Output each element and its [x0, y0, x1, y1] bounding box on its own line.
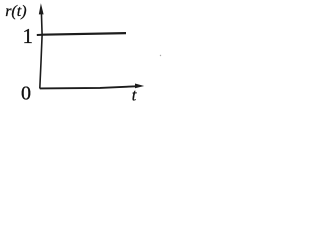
x-axis	[40, 86, 136, 88]
noise speck	[160, 55, 161, 56]
svg-text:0: 0	[21, 83, 31, 105]
svg-text:1: 1	[23, 24, 34, 48]
y-axis	[40, 12, 42, 89]
step line r(t)=1	[42, 33, 126, 35]
svg-text:t: t	[132, 85, 137, 104]
svg-text:r(t): r(t)	[5, 3, 26, 20]
x-axis arrowhead	[135, 84, 144, 89]
y-axis arrowhead	[39, 3, 44, 14]
tick at 1	[37, 34, 43, 36]
